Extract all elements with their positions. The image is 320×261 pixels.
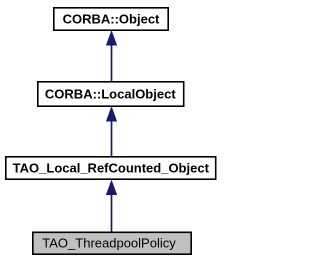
svg-text:CORBA::LocalObject: CORBA::LocalObject: [45, 87, 176, 102]
svg-text:CORBA::Object: CORBA::Object: [63, 12, 160, 27]
svg-text:TAO_ThreadpoolPolicy: TAO_ThreadpoolPolicy: [42, 236, 176, 251]
svg-text:TAO_Local_RefCounted_Object: TAO_Local_RefCounted_Object: [13, 161, 210, 176]
